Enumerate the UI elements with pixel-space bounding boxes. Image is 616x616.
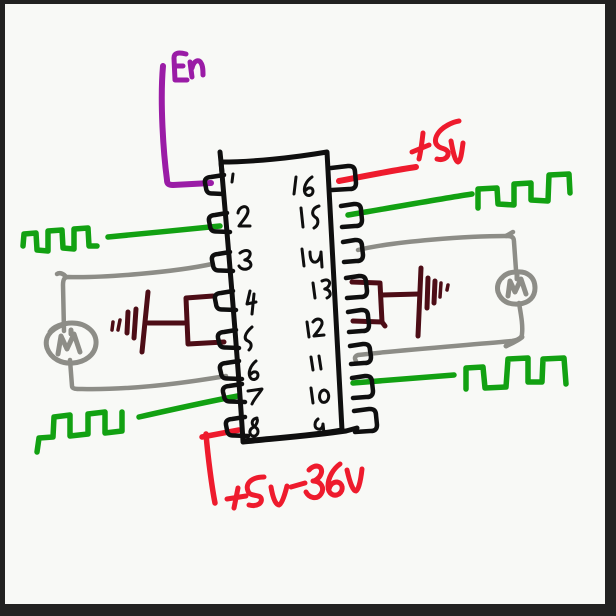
pin label 1 — [232, 174, 233, 182]
frame bottom — [0, 604, 616, 616]
pin 4 — [215, 291, 236, 310]
pin 9 — [354, 409, 377, 432]
pin 5 — [218, 330, 239, 348]
frame right — [605, 0, 616, 616]
pin label 4 — [247, 291, 256, 314]
wire: green squarewave input pin7 — [37, 395, 243, 452]
pin label 8 — [250, 418, 258, 436]
pin label 15 — [301, 206, 319, 228]
wire: green squarewave input pin15 — [348, 174, 570, 215]
IC U1 outline redraw — [220, 152, 357, 442]
pin label 11 — [311, 356, 321, 370]
pin 7 — [223, 384, 245, 402]
motor M1 left — [46, 323, 96, 363]
label En — [174, 53, 203, 80]
wire: gray pin14 to right motor top — [358, 232, 516, 270]
wire: red +5v to pin16 — [339, 167, 416, 181]
pin label 3 — [239, 250, 251, 269]
pin label 9 — [315, 419, 324, 433]
pin 10 — [352, 376, 373, 398]
frame left — [0, 0, 5, 616]
pin 14 — [343, 240, 363, 262]
wire: gray left motor bottom to pin6 — [70, 360, 226, 389]
pin label 5 — [245, 327, 252, 350]
pin 3 — [212, 252, 233, 271]
motor M2 right — [497, 272, 535, 346]
wire: green squarewave input pin2 — [23, 226, 220, 251]
pin 16 — [331, 166, 356, 190]
pin label 14 — [302, 249, 322, 267]
pin label 13 — [313, 280, 330, 298]
pin label 16 — [294, 177, 313, 195]
label +5v-36v bottom — [227, 464, 362, 508]
pin label 6 — [249, 361, 258, 379]
pin 8 — [226, 417, 248, 436]
wire: purple En enable wire to pin1 — [162, 66, 211, 185]
pin 6 — [220, 361, 242, 379]
frame top — [0, 0, 616, 4]
capacitor/ground group left (pins 4,5) — [127, 292, 224, 352]
pin label 2 — [238, 207, 250, 226]
IC U1 body — [221, 152, 342, 441]
pin 15 — [341, 204, 362, 227]
pin 13 — [346, 276, 367, 298]
pin label 7 — [248, 389, 262, 404]
wire: red supply to pin8 — [202, 430, 239, 503]
label +5v top — [412, 121, 463, 162]
pin 11 — [350, 344, 371, 364]
pin label 12 — [307, 319, 324, 337]
pin label 10 — [311, 388, 329, 403]
pin 2 — [209, 213, 230, 232]
pin 1 — [205, 175, 224, 194]
capacitor/ground group right (pins 13,12) — [352, 268, 435, 336]
wire: gray pin3 to left motor top — [57, 264, 212, 331]
pin 12 — [348, 310, 369, 332]
wire: gray right motor bottom to pin11 — [355, 303, 522, 361]
wire: green squarewave input pin10 — [353, 358, 566, 389]
